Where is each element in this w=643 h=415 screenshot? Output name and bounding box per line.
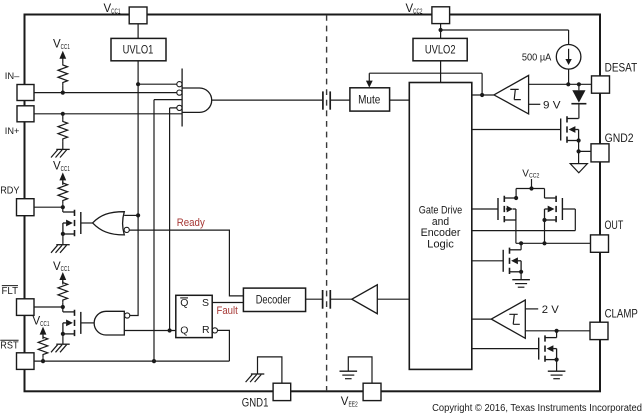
- transistor Q5 output pull-up B: [545, 196, 563, 222]
- ground symbol below Q2: [51, 344, 70, 352]
- wire RDY pin to pull-up node: [34, 207, 63, 212]
- wire VCC2 tap to current source: [441, 30, 569, 45]
- op-amp A1 DESAT comparator: [494, 75, 529, 114]
- pin GND2: [591, 133, 634, 162]
- transistor Q2 FLT open-drain: [63, 310, 81, 345]
- wire VCC2 rail totem pole: [516, 179, 544, 198]
- wire Q3 source to GND2: [579, 141, 591, 164]
- pin IN+: [5, 106, 34, 137]
- label copyright: [432, 403, 642, 414]
- svg-text:Q: Q: [180, 325, 188, 337]
- wire VCC2 pin to UVLO2 and gate drive: [440, 24, 442, 83]
- label 2 V with stub: [525, 304, 559, 316]
- label VCC1 above R4: [53, 261, 70, 273]
- block U4 Decoder: [243, 288, 305, 311]
- svg-text:IN+: IN+: [5, 126, 20, 137]
- power VCC1 arrow for R5: [40, 327, 47, 340]
- op-amp G1 input AND gate: [177, 69, 212, 127]
- wire IN+ net: [34, 113, 182, 115]
- transistor Q6 output pull-down: [472, 243, 521, 279]
- pin CLAMP: [590, 308, 638, 339]
- pin VEE2: [341, 383, 381, 408]
- wire VCC1 pin to UVLO1: [137, 24, 139, 39]
- wire IN- net: [34, 92, 177, 94]
- svg-text:OUT: OUT: [605, 220, 624, 232]
- svg-text:500 µA: 500 µA: [522, 52, 551, 64]
- power VCC1 arrow for R1: [59, 51, 66, 64]
- svg-text:Mute: Mute: [358, 93, 380, 107]
- diode D1 DESAT blocking: [571, 84, 586, 118]
- wire gate drive to Q4 gate: [472, 208, 498, 210]
- svg-text:Logic: Logic: [427, 238, 454, 250]
- node junction dots left side: [41, 82, 172, 363]
- pin RST: [0, 340, 34, 369]
- svg-text:9 V: 9 V: [543, 100, 561, 112]
- block U2 UVLO2: [413, 38, 467, 60]
- wire RST net horizontal: [34, 360, 229, 362]
- wire UVLO1 output vertical: [130, 61, 138, 316]
- ground symbol GND2 open triangle: [570, 164, 587, 173]
- wire Decoder output to isolation cap: [306, 298, 322, 300]
- ground symbol below Q7: [548, 371, 566, 379]
- ground symbol below Q6: [512, 280, 530, 288]
- wire Ready net from OR bubble to Decoder: [129, 230, 243, 296]
- wire CLAMP comparator output to gate drive: [472, 318, 492, 320]
- label VCC1 above R5: [33, 316, 50, 328]
- op-amp G3 FLT NAND gate: [81, 311, 130, 335]
- resistor R5 RST pull-up: [38, 335, 48, 361]
- svg-text:Copyright © 2016, Texas Instru: Copyright © 2016, Texas Instruments Inco…: [432, 403, 642, 414]
- pin VCC2: [406, 3, 450, 24]
- svg-text:Decoder: Decoder: [256, 293, 291, 307]
- label VCC1 above R3: [53, 160, 70, 172]
- svg-text:Encoder: Encoder: [421, 227, 461, 239]
- svg-text:GND1: GND1: [242, 398, 269, 410]
- resistor R3 RDY pull-up: [58, 181, 68, 207]
- wire DESAT comparator output to gate drive: [472, 94, 494, 96]
- svg-text:UVLO1: UVLO1: [123, 43, 154, 57]
- pin RDY: [0, 186, 34, 216]
- wire CLAMP sense line: [525, 330, 590, 332]
- capacitor C1 isolation top: [323, 91, 350, 109]
- op-amp A2 CLAMP comparator: [491, 300, 525, 338]
- wire UVLO1 to AND gate input 1: [138, 83, 177, 85]
- wire latch Q output to NAND input: [124, 330, 175, 332]
- svg-text:Ready: Ready: [177, 217, 206, 229]
- svg-text:RDY: RDY: [0, 186, 20, 197]
- pin FLT: [2, 286, 35, 316]
- wire OUT net: [516, 242, 591, 244]
- wire Mute output to gate drive block: [390, 99, 410, 101]
- current source I1 500uA: [556, 45, 581, 85]
- power VCC1 arrow for R4: [59, 272, 66, 285]
- label VCC1 above R1: [53, 39, 70, 51]
- wire AND gate output to isolation cap: [212, 99, 323, 101]
- svg-text:CLAMP: CLAMP: [605, 308, 638, 320]
- svg-text:DESAT: DESAT: [605, 62, 638, 74]
- ground symbol below R2: [51, 149, 70, 157]
- svg-text:R: R: [202, 324, 210, 336]
- wire RST net vertical to AND input 3: [154, 100, 182, 362]
- capacitor C2 isolation bottom: [323, 290, 352, 309]
- svg-text:Fault: Fault: [217, 305, 238, 317]
- wire latch R input from RST: [218, 330, 230, 361]
- svg-text:IN–: IN–: [5, 71, 20, 82]
- block U5 Gate Drive and Encoder Logic: [409, 83, 472, 370]
- wire Q4 source to OUT line: [515, 220, 517, 243]
- svg-text:and: and: [432, 216, 449, 228]
- wire latch Q feedback vertical to AND input 4: [170, 108, 177, 331]
- label VCC2 totem pole: [522, 168, 539, 179]
- isolation barrier dashed line: [326, 15, 328, 391]
- flip-flop U6 SR latch box: [176, 295, 218, 337]
- op-amp A3 feedback buffer: [352, 285, 410, 314]
- wire OR gate input from UVLO1 line: [124, 214, 138, 216]
- wire latch S input from Decoder: [212, 302, 243, 304]
- power VCC1 arrow for R3: [59, 172, 66, 185]
- svg-text:FLT: FLT: [2, 286, 19, 297]
- wire GND1 pin to ground: [258, 357, 282, 383]
- wire gate drive to Q5 gate: [472, 209, 576, 231]
- wire DESAT sense line: [529, 83, 592, 85]
- wire FLT pin to pull-up node: [34, 307, 63, 312]
- pin GND1: [242, 383, 291, 409]
- resistor R1 IN- pull-up: [58, 63, 68, 92]
- pin OUT: [591, 220, 624, 252]
- resistor R4 FLT pull-up: [58, 281, 68, 307]
- svg-text:RST: RST: [0, 340, 18, 351]
- label Ready (red): [177, 217, 206, 229]
- label 500 uA: [522, 52, 551, 64]
- ground symbol VEE2: [340, 371, 358, 379]
- ground symbol GND1: [246, 374, 265, 382]
- label 9 V with stub: [529, 100, 562, 112]
- block U3 Mute: [350, 88, 390, 111]
- ground symbol below Q1: [51, 245, 70, 253]
- wire DESAT comparator to Mute arrow: [366, 73, 482, 95]
- wire Q5 source to OUT line: [544, 220, 546, 243]
- transistor Q3 DESAT discharge: [472, 116, 579, 142]
- resistor R2 IN+ pull-down: [58, 114, 68, 150]
- svg-text:2 V: 2 V: [542, 304, 560, 316]
- op-amp G2 RDY OR gate: [81, 212, 130, 235]
- transistor Q4 output pull-up A: [498, 196, 516, 222]
- svg-text:UVLO2: UVLO2: [425, 43, 456, 57]
- svg-text:S: S: [202, 297, 209, 309]
- pin IN-: [5, 71, 34, 101]
- svg-text:Q: Q: [180, 297, 188, 309]
- block U1 UVLO1: [111, 38, 166, 60]
- pin VCC1: [104, 3, 148, 24]
- transistor Q7 CLAMP: [472, 331, 557, 371]
- svg-text:Gate Drive: Gate Drive: [419, 205, 462, 217]
- wire VEE2 pin to ground: [348, 357, 372, 383]
- transistor Q1 RDY open-drain: [63, 210, 81, 245]
- pin DESAT: [592, 62, 638, 93]
- node junction dots right side: [439, 28, 582, 362]
- label Fault (red): [217, 305, 238, 317]
- svg-text:GND2: GND2: [605, 133, 634, 145]
